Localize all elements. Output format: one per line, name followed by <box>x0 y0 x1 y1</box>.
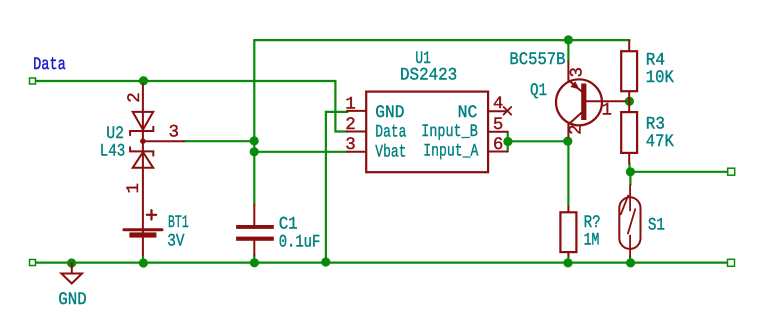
svg-text:Q1: Q1 <box>530 81 547 101</box>
svg-text:3: 3 <box>568 67 588 78</box>
svg-text:Data: Data <box>375 123 406 143</box>
svg-text:GND: GND <box>375 103 404 123</box>
svg-text:1: 1 <box>124 183 144 194</box>
svg-text:47K: 47K <box>646 132 674 152</box>
svg-text:3: 3 <box>169 122 180 142</box>
svg-text:2: 2 <box>125 92 145 103</box>
svg-text:DS2423: DS2423 <box>400 66 457 86</box>
svg-text:BC557B: BC557B <box>509 50 565 70</box>
svg-text:3V: 3V <box>167 232 185 252</box>
svg-text:5: 5 <box>493 115 504 135</box>
svg-text:BT1: BT1 <box>168 213 189 233</box>
svg-text:10K: 10K <box>646 68 674 88</box>
svg-text:Input_A: Input_A <box>423 142 478 162</box>
svg-text:4: 4 <box>493 94 504 114</box>
svg-text:Input_B: Input_B <box>421 122 478 142</box>
svg-text:S1: S1 <box>648 215 665 235</box>
svg-text:Data: Data <box>33 55 66 75</box>
svg-text:1: 1 <box>602 101 613 121</box>
svg-text:NC: NC <box>458 103 478 123</box>
svg-text:Vbat: Vbat <box>375 142 406 162</box>
svg-text:GND: GND <box>58 290 86 310</box>
svg-text:0.1uF: 0.1uF <box>279 232 321 252</box>
svg-text:1: 1 <box>345 95 356 115</box>
svg-text:3: 3 <box>345 135 356 155</box>
svg-text:2: 2 <box>345 115 356 135</box>
svg-text:L43: L43 <box>100 142 126 162</box>
svg-text:2: 2 <box>567 124 587 135</box>
svg-text:1M: 1M <box>584 231 600 251</box>
svg-text:6: 6 <box>493 135 504 155</box>
